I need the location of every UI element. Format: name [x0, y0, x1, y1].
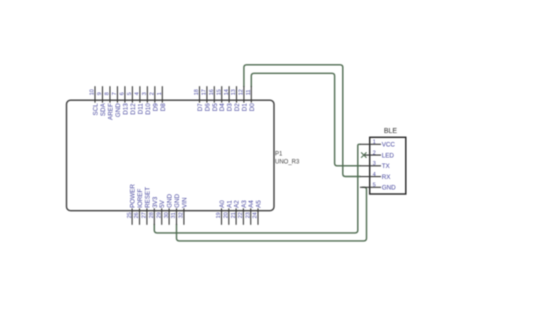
pin 13 D2 (UNO top) [231, 86, 241, 111]
svg-text:16: 16 [209, 89, 215, 95]
svg-text:3: 3 [142, 92, 148, 95]
svg-text:UNO_R3: UNO_R3 [275, 159, 300, 165]
svg-text:VIN: VIN [181, 197, 188, 208]
pin 25 POWER (UNO bottom) [127, 184, 137, 225]
svg-text:19: 19 [216, 212, 222, 218]
svg-text:28: 28 [149, 212, 155, 218]
svg-text:21: 21 [231, 212, 237, 218]
svg-text:4: 4 [135, 92, 141, 95]
svg-text:D0: D0 [249, 103, 256, 112]
svg-text:4: 4 [373, 172, 376, 178]
svg-text:A4: A4 [248, 200, 255, 208]
pin 5 D12 (UNO top) [127, 86, 137, 115]
svg-text:29: 29 [156, 212, 162, 218]
wire D0 (pin 11) to BLE TX [251, 73, 360, 166]
svg-text:GND: GND [174, 193, 181, 207]
svg-text:D12: D12 [130, 103, 137, 115]
svg-text:2: 2 [150, 92, 156, 95]
svg-text:A0: A0 [219, 200, 226, 208]
pin 21 A2 (UNO bottom) [231, 200, 241, 225]
BLE pin 4 RX [360, 172, 391, 181]
svg-text:17: 17 [202, 89, 208, 95]
svg-text:D3: D3 [227, 103, 234, 112]
pin 24 A5 (UNO bottom) [253, 200, 263, 225]
svg-text:GND: GND [115, 103, 122, 117]
pin 4 D11 (UNO top) [135, 86, 145, 114]
svg-text:D6: D6 [204, 103, 211, 112]
svg-text:IOREF: IOREF [137, 189, 144, 208]
wire GND (pin 31) to BLE GND [177, 187, 367, 241]
svg-text:D9: D9 [152, 103, 159, 112]
svg-text:P1: P1 [275, 152, 283, 158]
svg-text:RESET: RESET [144, 187, 151, 208]
pin 6 D13 (UNO top) [120, 86, 130, 115]
svg-text:VCC: VCC [382, 142, 396, 149]
pin 27 RESET (UNO bottom) [142, 187, 152, 225]
pin 29 5V (UNO bottom) [156, 199, 166, 224]
svg-text:26: 26 [134, 212, 140, 218]
BLE pin 3 TX [360, 161, 391, 170]
svg-text:6: 6 [120, 92, 126, 95]
svg-text:BLE: BLE [384, 128, 398, 135]
pin 7 GND (UNO top) [112, 86, 122, 117]
svg-text:15: 15 [216, 89, 222, 95]
svg-text:D1: D1 [241, 103, 248, 112]
pin 14 D3 (UNO top) [224, 86, 234, 111]
svg-text:7: 7 [112, 92, 118, 95]
svg-text:14: 14 [224, 89, 230, 95]
svg-text:22: 22 [238, 212, 244, 218]
BLE module body [370, 137, 406, 194]
wire 3V3 (pin 28) to BLE VCC [154, 144, 360, 233]
svg-text:3V3: 3V3 [152, 196, 159, 208]
svg-text:A3: A3 [241, 200, 248, 208]
svg-text:1: 1 [157, 92, 163, 95]
svg-text:TX: TX [382, 163, 391, 170]
BLE pin 5 GND [360, 183, 396, 192]
svg-text:12: 12 [239, 89, 245, 95]
pin 20 A1 (UNO bottom) [224, 200, 234, 225]
svg-text:5: 5 [373, 183, 376, 189]
pin 16 D5 (UNO top) [209, 86, 219, 111]
svg-text:18: 18 [194, 89, 200, 95]
svg-text:D5: D5 [212, 103, 219, 112]
svg-text:25: 25 [127, 212, 133, 218]
svg-text:LED: LED [382, 152, 395, 159]
svg-text:GND: GND [382, 185, 396, 192]
svg-text:D11: D11 [137, 103, 144, 115]
svg-text:9: 9 [97, 92, 103, 95]
svg-text:31: 31 [171, 212, 177, 218]
svg-text:27: 27 [142, 212, 148, 218]
pin 19 A0 (UNO bottom) [216, 200, 226, 225]
pin 1 D8 (UNO top) [157, 86, 167, 111]
svg-text:3: 3 [373, 161, 376, 167]
svg-text:SDA: SDA [100, 102, 107, 116]
wire D1 (pin 12) to BLE RX [244, 65, 361, 177]
pin 10 SCL (UNO top) [90, 86, 100, 115]
pin 32 VIN (UNO bottom) [179, 197, 189, 225]
svg-text:POWER: POWER [130, 184, 137, 208]
pin 15 D4 (UNO top) [216, 86, 226, 111]
svg-text:10: 10 [90, 89, 96, 95]
pin 23 A4 (UNO bottom) [245, 200, 255, 225]
svg-text:D8: D8 [160, 103, 167, 112]
svg-text:11: 11 [246, 90, 252, 96]
svg-text:5V: 5V [159, 199, 166, 208]
svg-text:AREF: AREF [107, 103, 114, 120]
svg-text:23: 23 [245, 212, 251, 218]
svg-text:A5: A5 [256, 200, 263, 208]
svg-text:5: 5 [127, 92, 133, 95]
BLE pin 2 LED [363, 150, 394, 159]
svg-text:GND: GND [167, 193, 174, 207]
pin 2 D9 (UNO top) [150, 86, 160, 111]
svg-text:1: 1 [373, 140, 376, 146]
svg-text:20: 20 [224, 212, 230, 218]
pin 18 D7 (UNO top) [194, 86, 204, 111]
pin 26 IOREF (UNO bottom) [134, 189, 144, 225]
svg-text:D2: D2 [234, 103, 241, 112]
svg-text:D13: D13 [122, 103, 129, 115]
no-connect X on BLE LED pin [361, 152, 366, 157]
svg-text:D4: D4 [219, 103, 226, 112]
BLE pin 1 VCC [360, 140, 395, 149]
pin 12 D1 (UNO top) [239, 86, 249, 111]
svg-text:A2: A2 [234, 200, 241, 208]
pin 11 D0 (UNO top) [246, 86, 256, 111]
svg-text:24: 24 [253, 212, 259, 218]
pin 8 AREF (UNO top) [105, 86, 115, 120]
svg-text:D7: D7 [197, 103, 204, 112]
pin 9 SDA (UNO top) [97, 86, 107, 116]
svg-text:8: 8 [105, 92, 111, 95]
svg-text:32: 32 [179, 212, 185, 218]
svg-text:13: 13 [231, 89, 237, 95]
pin 31 GND (UNO bottom) [171, 193, 181, 224]
pin 3 D10 (UNO top) [142, 86, 152, 115]
svg-text:SCL: SCL [93, 103, 100, 116]
svg-text:2: 2 [373, 150, 376, 156]
pin 22 A3 (UNO bottom) [238, 200, 248, 225]
pin 28 3V3 (UNO bottom) [149, 196, 159, 225]
pin 17 D6 (UNO top) [202, 86, 212, 111]
svg-text:RX: RX [382, 174, 392, 181]
pin 30 GND (UNO bottom) [164, 193, 174, 224]
Arduino UNO_R3 body (P1) [67, 100, 275, 211]
svg-text:D10: D10 [145, 103, 152, 115]
svg-text:30: 30 [164, 212, 170, 218]
svg-text:A1: A1 [226, 200, 233, 208]
